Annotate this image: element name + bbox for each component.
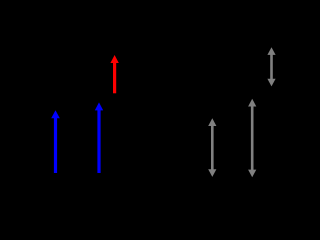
- blue up arrow 2 (second photon): [95, 102, 103, 173]
- blue up arrow 1 (left photon): [51, 110, 60, 173]
- gray double arrow left (energy gap): [208, 118, 216, 177]
- gray double arrow middle (energy gap): [248, 99, 256, 178]
- red up arrow (emitted photon): [110, 55, 118, 93]
- gray double arrow right (energy gap): [267, 47, 275, 86]
